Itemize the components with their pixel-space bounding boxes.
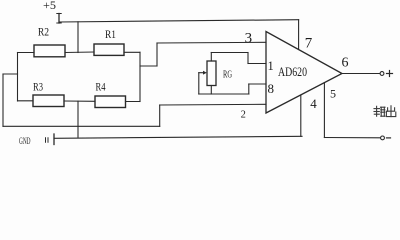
- svg-text:5: 5: [330, 87, 336, 101]
- output plus sign: [387, 71, 393, 77]
- svg-text:+5: +5: [43, 0, 56, 12]
- svg-text:2: 2: [241, 110, 246, 121]
- pin 4 wire riser: [300, 95, 302, 136]
- resistor R2: [34, 27, 65, 57]
- svg-text:R4: R4: [96, 80, 106, 94]
- wire RG loop right bottom notch: [248, 84, 250, 94]
- svg-text:7: 7: [305, 36, 313, 52]
- pin 5 wire riser: [323, 83, 325, 138]
- wire ground line: [54, 136, 302, 138]
- pin 7 wire: [298, 20, 300, 50]
- wire RG loop top edge: [211, 52, 248, 54]
- wire bottom feed to riser: [3, 125, 160, 127]
- wire to op-amp pin 2: [160, 103, 266, 106]
- svg-text:RG: RG: [223, 70, 232, 81]
- wire to pin 8: [249, 83, 266, 85]
- wire bridge right node vertical: [139, 52, 141, 101]
- wire riser to pin 2 level: [159, 105, 161, 126]
- wire +5 rail to bridge top node: [77, 22, 79, 53]
- output terminal minus circle: [381, 136, 385, 140]
- wire RG loop bottom edge: [199, 93, 249, 95]
- svg-text:8: 8: [267, 81, 274, 96]
- resistor R4: [95, 80, 126, 108]
- RG wiper tail: [198, 73, 200, 94]
- svg-text:3: 3: [245, 30, 253, 46]
- output terminal plus circle: [380, 72, 384, 76]
- svg-text:R2: R2: [38, 27, 49, 39]
- wire R2-R1 top link: [65, 51, 94, 54]
- output wire minus: [324, 137, 380, 139]
- glyph shu: [374, 106, 385, 116]
- output minus sign: [387, 137, 391, 139]
- output label shuchu (Chinese): [374, 106, 396, 117]
- wire to op-amp pin 3: [157, 41, 266, 44]
- wire bridge left tap: [3, 73, 18, 75]
- wire bridge left node vertical: [17, 53, 19, 102]
- svg-text:GND: GND: [19, 137, 31, 147]
- potentiometer RG: [199, 61, 232, 94]
- wire left outer vertical: [2, 74, 4, 126]
- svg-text:4: 4: [310, 96, 317, 111]
- svg-text:AD620: AD620: [278, 64, 307, 79]
- wire RG bottom lead: [210, 86, 212, 95]
- wire R1 right lead: [124, 51, 140, 53]
- wire RG top lead: [210, 53, 212, 62]
- resistor R1: [94, 29, 124, 55]
- wire R4 right lead: [126, 101, 141, 103]
- wire riser to pin 3 level: [156, 43, 158, 66]
- ground terminal: [46, 134, 55, 145]
- +5 terminal: [57, 14, 61, 24]
- wire R2 left lead: [18, 52, 35, 54]
- svg-text:1: 1: [267, 59, 273, 73]
- wire bridge bottom to ground drop: [77, 101, 79, 137]
- wire +5 rail: [59, 20, 299, 22]
- resistor R3: [33, 80, 64, 107]
- wire bridge right tap: [140, 65, 157, 67]
- glyph chu: [386, 106, 395, 117]
- wire to pin 1: [248, 63, 266, 65]
- op-amp U1 AD620: [266, 32, 342, 114]
- svg-text:6: 6: [342, 56, 349, 71]
- wire R3 left lead: [18, 100, 34, 102]
- RG wiper arrow: [199, 72, 205, 74]
- wire RG loop right top notch: [247, 53, 249, 64]
- output wire plus: [342, 73, 380, 75]
- svg-text:R1: R1: [105, 29, 116, 41]
- wire R3-R4 bottom link: [64, 100, 95, 102]
- svg-text:R3: R3: [33, 80, 43, 94]
